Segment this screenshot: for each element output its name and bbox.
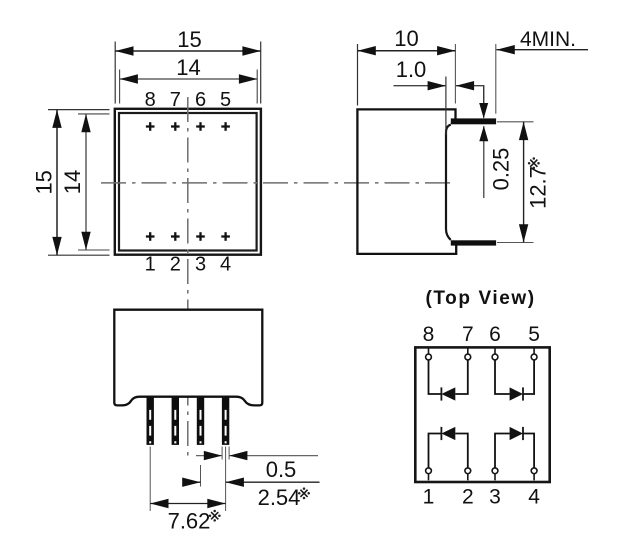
top lead (flat pin): [451, 118, 496, 124]
svg-text:8: 8: [423, 323, 435, 346]
side body outline: [357, 109, 456, 254]
centerline horizontal (view1/view2): [101, 182, 456, 184]
package body outer outline: [115, 109, 261, 255]
pin mark + (pin 3): [196, 235, 205, 237]
dimension 7.62 : extension line under lead 1: [149, 447, 151, 512]
dimension 10 : dimension line: [358, 50, 456, 52]
svg-text:3: 3: [195, 254, 206, 276]
dimension 12.7 : arrowheads: [519, 122, 528, 140]
reference mark for 2.54: [300, 490, 307, 497]
diode D1 wiring (pins 8-7): [429, 360, 442, 394]
dimension 14 left : arrowheads: [81, 114, 90, 132]
dimension 14 top : extension lines: [119, 70, 121, 104]
dimension 15 top : arrowheads: [115, 46, 133, 55]
pin mark + (pin 8): [146, 122, 230, 241]
pin mark + (pin 1): [146, 235, 155, 237]
svg-text:7: 7: [170, 89, 181, 111]
pin mark + (pin 6): [196, 125, 205, 127]
package body inner outline: [119, 113, 257, 251]
dimension 4MIN. : extension line: [495, 44, 497, 114]
dimension 15 left : extension lines: [48, 109, 110, 111]
svg-text:6: 6: [489, 323, 501, 346]
dimension 15 top : extension lines: [114, 42, 116, 104]
svg-text:15: 15: [32, 170, 57, 194]
diode D2 (cathode toward pin 5): [510, 387, 523, 400]
dimension 0.5 : extension lines at lead 4 edges: [221, 447, 223, 460]
svg-text:1.0: 1.0: [396, 57, 427, 82]
dimension 15 left : dimension line: [56, 110, 58, 256]
pin mark + (pin 5): [221, 125, 230, 127]
svg-text:15: 15: [177, 27, 201, 52]
centerline vertical (view1/view3): [187, 97, 189, 456]
reference mark for 7.62: [211, 512, 218, 519]
dimension 15 left : arrowheads: [52, 110, 61, 128]
diode D2 wiring (pins 6-5): [495, 360, 510, 394]
svg-text:14: 14: [60, 170, 85, 194]
dimension 12.7 : extension lines from lead ends: [497, 121, 534, 123]
lower body outline: [114, 310, 262, 406]
svg-text:5: 5: [220, 89, 231, 111]
svg-text:7.62: 7.62: [168, 509, 211, 534]
dimension 4MIN. : dimension line: [497, 49, 589, 51]
pin terminal circles top: [426, 354, 537, 474]
lead 4: [222, 398, 229, 445]
dimension 1.0 : extension line: [445, 77, 447, 136]
pin mark + (pin 4): [221, 235, 230, 237]
dimension 15 top : dimension line: [115, 50, 261, 52]
dimension 14 left : dimension line: [85, 114, 87, 250]
diode D4 (cathode toward pin 4): [510, 427, 523, 440]
svg-text:3: 3: [489, 486, 501, 509]
svg-text:2.54: 2.54: [258, 485, 301, 510]
pin terminal circles bottom: [426, 468, 432, 474]
dimension 4MIN. : arrowhead: [497, 45, 515, 54]
schematic box: [415, 347, 549, 482]
bottom lead (flat pin): [451, 240, 496, 245]
side body right profile between leads: [446, 125, 451, 240]
svg-text:7: 7: [462, 323, 474, 346]
dimension 14 left : extension lines: [78, 113, 110, 115]
dimension 14 top : arrowheads: [120, 74, 138, 83]
diode D1 (cathode toward pin 8): [441, 387, 455, 400]
lead 3: [197, 398, 204, 445]
svg-text:(Top View): (Top View): [425, 288, 535, 309]
svg-text:4: 4: [528, 486, 540, 509]
dimension 2.54 : arrowheads: [182, 478, 200, 487]
reference mark for 12.7: [530, 160, 537, 167]
svg-text:5: 5: [528, 323, 540, 346]
svg-text:0.25: 0.25: [489, 148, 514, 191]
svg-text:1: 1: [423, 486, 435, 509]
svg-text:0.5: 0.5: [266, 457, 297, 482]
pin stubs from box edge to circles: [429, 348, 535, 481]
diode D3 wiring (pins 1-2): [429, 434, 442, 468]
svg-text:10: 10: [394, 26, 418, 51]
diode D4 wiring (pins 3-4): [495, 434, 510, 468]
dimension 2.54 : dimension lines: [184, 481, 201, 483]
pin mark + (pin 2): [171, 235, 180, 237]
lead 2: [172, 398, 179, 445]
svg-text:1: 1: [145, 254, 156, 276]
dimension 1.0 : dimension line left part: [394, 85, 446, 87]
svg-text:8: 8: [145, 89, 156, 111]
dimension 14 top : dimension line: [120, 78, 258, 80]
dimension 10 : extension lines: [357, 44, 359, 106]
svg-text:4MIN.: 4MIN.: [520, 28, 576, 51]
dimension 7.62 : dimension line: [150, 503, 225, 505]
dimension 1.0 : right tail with bend down: [456, 86, 484, 104]
svg-text:12.7: 12.7: [526, 166, 551, 209]
lead 1: [147, 398, 154, 445]
svg-text:14: 14: [176, 55, 200, 80]
dimension 0.25 : lower arrow pointing up to lead bottom: [483, 126, 485, 198]
svg-text:2: 2: [462, 486, 474, 509]
dimension 0.25 : upper arrow pointing down to lead top: [483, 86, 485, 118]
dimension 12.7 : dimension line: [523, 122, 525, 243]
dimension 0.5 : arrowheads: [204, 451, 222, 460]
dimension 0.5 : dimension lines: [196, 455, 222, 457]
dimension 7.62 : arrowheads: [150, 499, 168, 508]
dimension 1.0 : arrowheads: [428, 81, 446, 90]
svg-text:4: 4: [220, 254, 231, 276]
diode D3 (cathode toward pin 1): [441, 427, 455, 440]
svg-text:6: 6: [195, 89, 206, 111]
svg-text:2: 2: [170, 254, 181, 276]
dimension 10 : arrowheads: [358, 46, 376, 55]
dimension 2.54 : extension lines: [200, 465, 202, 487]
pin mark + (pin 7): [171, 125, 180, 127]
